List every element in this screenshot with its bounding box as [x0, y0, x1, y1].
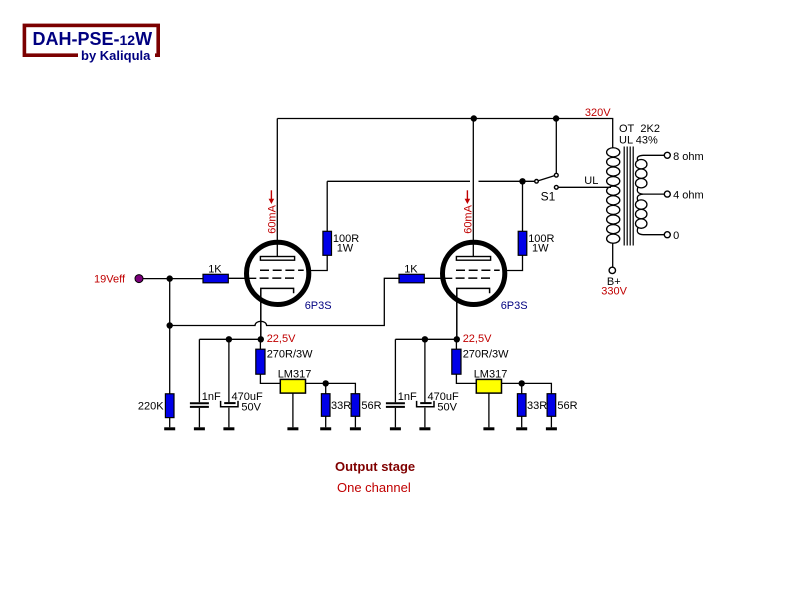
svg-text:1nF: 1nF [398, 391, 417, 403]
svg-text:6P3S: 6P3S [501, 300, 528, 312]
svg-text:19Veff: 19Veff [94, 273, 126, 285]
svg-text:56R: 56R [361, 400, 381, 412]
svg-text:Output stage: Output stage [335, 459, 415, 474]
svg-text:6P3S: 6P3S [305, 300, 332, 312]
svg-text:4 ohm: 4 ohm [673, 190, 704, 202]
svg-text:OT 2K2: OT 2K2 [619, 123, 660, 135]
svg-text:UL 43%: UL 43% [619, 135, 658, 147]
svg-text:8 ohm: 8 ohm [673, 151, 704, 163]
svg-text:1K: 1K [404, 264, 418, 276]
svg-text:1nF: 1nF [202, 391, 221, 403]
svg-text:56R: 56R [557, 400, 577, 412]
svg-text:DAH-PSE-12W: DAH-PSE-12W [33, 29, 153, 49]
svg-text:320V: 320V [585, 107, 611, 119]
svg-text:33R: 33R [331, 400, 351, 412]
svg-text:60mA: 60mA [463, 204, 475, 233]
svg-text:One channel: One channel [337, 480, 411, 495]
svg-text:330V: 330V [601, 285, 627, 297]
svg-text:0: 0 [673, 230, 679, 242]
svg-text:22,5V: 22,5V [267, 333, 296, 345]
svg-text:22,5V: 22,5V [463, 333, 492, 345]
svg-text:by Kaliqula: by Kaliqula [81, 48, 151, 63]
svg-text:1K: 1K [208, 264, 222, 276]
svg-text:S1: S1 [541, 189, 556, 203]
svg-text:50V: 50V [241, 402, 261, 414]
svg-text:UL: UL [584, 175, 598, 187]
svg-text:LM317: LM317 [474, 368, 508, 380]
svg-text:33R: 33R [527, 400, 547, 412]
svg-text:60mA: 60mA [267, 204, 279, 233]
svg-text:220K: 220K [138, 400, 164, 412]
svg-text:270R/3W: 270R/3W [463, 349, 509, 361]
svg-text:50V: 50V [437, 402, 457, 414]
svg-text:1W: 1W [532, 242, 549, 254]
svg-text:270R/3W: 270R/3W [267, 349, 313, 361]
svg-text:LM317: LM317 [278, 368, 312, 380]
svg-text:1W: 1W [337, 242, 354, 254]
